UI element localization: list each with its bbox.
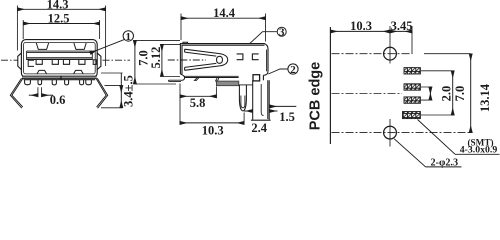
- dimension 14.3 line: [17, 8, 105, 10]
- dimension 14.3 extension lines: [17, 6, 105, 67]
- right latch bump: [97, 53, 101, 70]
- leader hole note: [394, 139, 425, 167]
- bottom rib left: [37, 70, 47, 74]
- shell top front tab: [183, 42, 188, 43]
- shell window square B: [252, 54, 258, 60]
- pad 2: [404, 84, 420, 90]
- contact square 4: [79, 60, 85, 64]
- left hold-down leg: [10, 78, 22, 108]
- svg-text:5.8: 5.8: [190, 96, 206, 110]
- callout circle 2: [288, 64, 298, 74]
- hole 1: [384, 47, 397, 60]
- dimension 3.45 ext: [411, 26, 413, 54]
- svg-text:2: 2: [290, 64, 296, 76]
- svg-text:1: 1: [126, 31, 132, 43]
- dimension 10.3 tick: [243, 113, 245, 125]
- foot 1: [25, 80, 31, 85]
- dimension 2.0 extension lines: [421, 87, 432, 100]
- dimension 3.4 line: [120, 73, 122, 86]
- svg-text:2-φ2.3: 2-φ2.3: [431, 157, 459, 168]
- rear leg bottom: [251, 119, 271, 121]
- hole 2: [384, 126, 397, 139]
- svg-text:3: 3: [279, 27, 285, 39]
- dimension 12.5 extension lines: [23, 20, 99, 39]
- underline for 2-phi2.3: [426, 166, 462, 168]
- dimension 3.45 line: [390, 30, 412, 32]
- top guide notch right: [74, 43, 86, 49]
- pad 4: [403, 112, 421, 119]
- bottom rib right: [74, 70, 84, 74]
- dimension 5.8 line: [180, 95, 216, 97]
- rear bottom line: [239, 84, 253, 86]
- svg-text:12.5: 12.5: [48, 11, 70, 25]
- dimension 0.6 arrows: [29, 94, 38, 96]
- shell bottom band: [22, 76, 97, 78]
- PCB edge line: [329, 27, 331, 144]
- bottom flange line: [24, 79, 96, 81]
- dimension 2.0 line: [429, 87, 431, 100]
- dimension 10.3 line: [180, 122, 244, 124]
- svg-text:5.12: 5.12: [149, 47, 163, 69]
- svg-text:0.6: 0.6: [50, 93, 66, 107]
- hole 1 horizontal centerline: [332, 53, 413, 55]
- right hold-down leg: [96, 78, 108, 108]
- svg-text:14.3: 14.3: [47, 0, 69, 12]
- tongue bottom bar: [27, 59, 93, 61]
- base bar: [216, 81, 238, 86]
- dimension 13.14 line: [470, 54, 472, 133]
- svg-text:14.4: 14.4: [213, 6, 236, 20]
- dimension 2.4 arrows: [244, 110, 253, 112]
- foot 4: [65, 80, 69, 85]
- 13.14 top extension: [424, 53, 471, 55]
- dimension 1.5 line: [270, 105, 297, 107]
- contact square 1: [36, 60, 42, 64]
- shell outer outline: [21, 40, 97, 78]
- shell rear step: [263, 71, 268, 80]
- left latch bump: [18, 53, 22, 70]
- svg-text:2.0: 2.0: [439, 86, 453, 102]
- dimension 10.3 line (footprint): [330, 30, 390, 32]
- rear leg: [253, 80, 270, 119]
- hole 2 vertical centerline: [389, 119, 391, 147]
- mid centerline: [332, 93, 403, 95]
- dimension 7.0 line (footprint): [452, 71, 454, 115]
- foot 3: [52, 80, 56, 85]
- svg-text:PCB edge: PCB edge: [308, 62, 324, 131]
- dimension 7.0 extension lines: [421, 71, 454, 115]
- leader for callout 3: [250, 32, 277, 44]
- callout circle 1: [123, 31, 133, 41]
- hole 1 vertical centerline: [389, 26, 391, 64]
- leader for callout 2: [268, 69, 288, 74]
- shell bottom lines: [184, 76, 239, 77]
- dimension 5.8 extension lines: [180, 84, 216, 125]
- centerline side view: [168, 59, 206, 61]
- foot 6: [86, 80, 92, 85]
- front foot tab: [168, 80, 181, 81]
- svg-text:2.4: 2.4: [251, 121, 267, 135]
- right small mark: [93, 60, 96, 65]
- front foot curl: [180, 74, 184, 80]
- tongue ends: [27, 51, 93, 60]
- pad 3: [404, 97, 420, 103]
- contact square 2: [52, 60, 58, 64]
- svg-text:1.5: 1.5: [279, 110, 295, 124]
- dimension 5.12 extension lines: [163, 44, 180, 76]
- leader for callout 1: [90, 39, 124, 53]
- crimp tab mark 2: [216, 78, 219, 81]
- shell inner outline: [24, 43, 96, 74]
- tongue top lines: [27, 51, 93, 52]
- shell window square A: [237, 54, 243, 60]
- foot 2: [38, 80, 42, 85]
- dimension 0.6 ticks: [38, 87, 42, 97]
- top guide notch left: [36, 43, 48, 49]
- svg-text:13.14: 13.14: [478, 83, 492, 112]
- leader SMT pads note: [418, 120, 456, 155]
- centerline left view: [1, 59, 130, 61]
- svg-text:3.4±.5: 3.4±.5: [122, 75, 136, 107]
- rear hole square: [253, 75, 260, 81]
- crimp tab mark 1: [195, 78, 200, 81]
- dimension 12.5 line: [23, 23, 99, 25]
- center seam: [60, 76, 62, 80]
- shell top inner line: [266, 50, 268, 72]
- svg-text:10.3: 10.3: [202, 123, 224, 137]
- dimension 3.4 extension lines: [101, 73, 123, 108]
- dimension 14.4 extension lines: [181, 14, 266, 42]
- underline for 4-3.0x0.9: [455, 153, 500, 155]
- pad 1: [404, 68, 420, 74]
- svg-text:7.0: 7.0: [453, 86, 467, 102]
- svg-text:3.45: 3.45: [391, 19, 413, 33]
- front pin: [239, 85, 246, 111]
- dimension 14.4 line: [181, 17, 266, 19]
- contact square 3: [63, 60, 69, 64]
- dimension 7.0 extension lines: [136, 40, 180, 84]
- hole 2 horizontal centerline: [332, 132, 471, 134]
- dimension 7.0 line: [134, 40, 136, 84]
- left small bracket: [28, 60, 34, 66]
- retention spring fork: [185, 49, 228, 70]
- dimension 5.12 line: [161, 44, 163, 76]
- tongue mid line: [27, 56, 93, 58]
- svg-text:10.3: 10.3: [350, 19, 372, 33]
- foot 5: [80, 80, 84, 85]
- callout circle 3: [277, 27, 286, 36]
- shell side outline: [180, 44, 268, 74]
